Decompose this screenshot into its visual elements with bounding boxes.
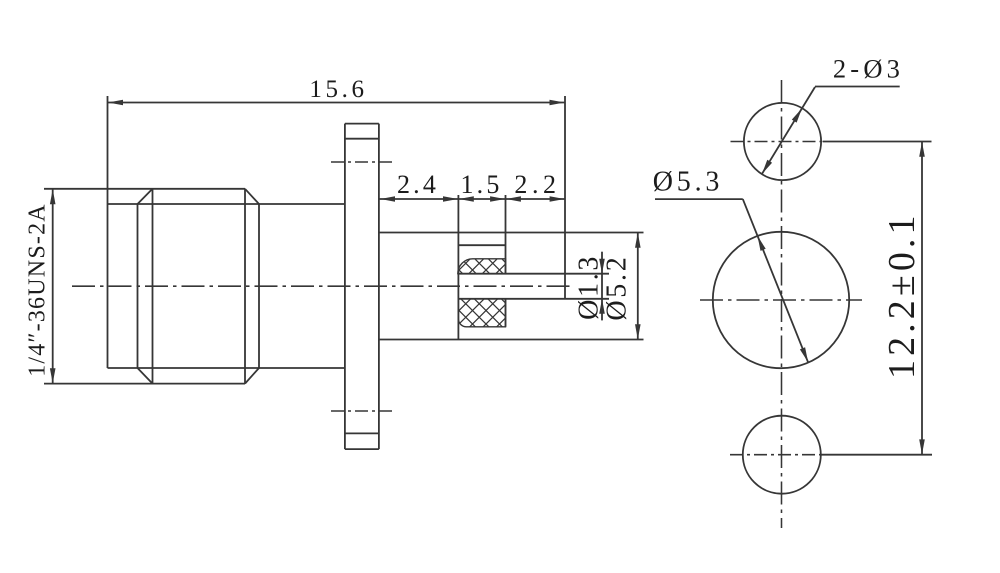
svg-text:15.6: 15.6 [309, 76, 367, 103]
svg-text:2-Ø3: 2-Ø3 [833, 54, 904, 84]
svg-text:Ø1.3: Ø1.3 [574, 254, 605, 320]
svg-text:Ø5.3: Ø5.3 [653, 167, 723, 198]
svg-text:2.4: 2.4 [397, 170, 439, 199]
svg-text:1.5: 1.5 [460, 170, 502, 199]
svg-text:1/4″-36UNS-2A: 1/4″-36UNS-2A [25, 203, 51, 377]
svg-text:Ø5.2: Ø5.2 [602, 255, 633, 321]
svg-text:12.2±0.1: 12.2±0.1 [881, 211, 923, 379]
svg-text:2.2: 2.2 [514, 170, 560, 199]
